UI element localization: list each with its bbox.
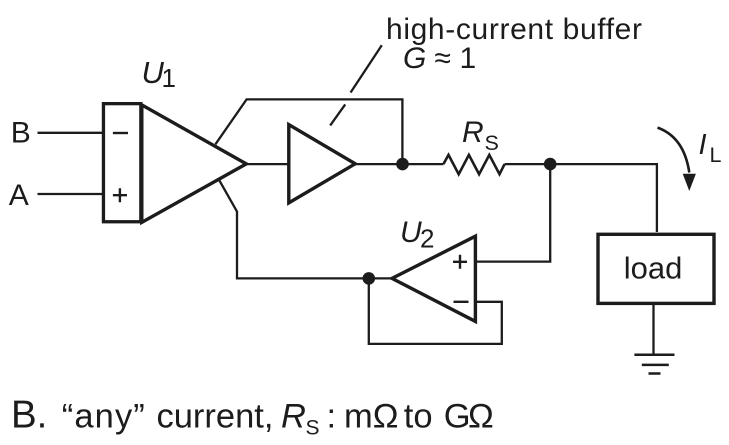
svg-text:I: I xyxy=(699,129,707,161)
op-amp U1 non-inverting pin plus xyxy=(113,188,127,202)
svg-text:B: B xyxy=(11,116,31,149)
resistor RS xyxy=(443,155,504,174)
wire sense node to U2 plus input xyxy=(476,164,551,262)
op-amp U2 plus pin xyxy=(453,255,467,269)
op-amp U2 triangle xyxy=(392,236,475,321)
op-amp U1 input block xyxy=(103,104,140,222)
svg-text:A: A xyxy=(9,179,29,212)
svg-text:G≈1: G≈1 xyxy=(403,42,476,75)
svg-text:S: S xyxy=(485,131,499,155)
load box xyxy=(598,234,714,303)
wire U1 output to buffer xyxy=(246,163,289,165)
svg-text:B.“any”current,RS:mΩtoGΩ: B.“any”current,RS:mΩtoGΩ xyxy=(11,394,494,440)
wire A input xyxy=(38,193,104,195)
svg-text:R: R xyxy=(462,116,484,149)
high-current buffer triangle xyxy=(289,125,355,203)
junction dot buffer output xyxy=(396,158,409,171)
wire from U1 bottom edge to U2 output node xyxy=(219,179,392,278)
op-amp U1 inverting pin minus xyxy=(113,132,128,134)
op-amp U1 triangle xyxy=(142,105,247,222)
svg-text:high-current buffer: high-current buffer xyxy=(386,13,642,46)
svg-text:load: load xyxy=(624,251,683,286)
wire U2 minus feedback loop xyxy=(369,278,502,344)
current arrow IL arc xyxy=(658,128,690,173)
wire down to load xyxy=(656,163,658,232)
junction dot U2 output xyxy=(363,272,376,285)
svg-text:L: L xyxy=(710,143,722,167)
svg-text:U: U xyxy=(400,216,422,249)
svg-text:2: 2 xyxy=(420,224,434,254)
junction dot RS right / sense node xyxy=(544,158,557,171)
wire buffer output xyxy=(354,163,443,165)
ground xyxy=(634,355,674,374)
current arrow IL head xyxy=(683,174,696,191)
wire load to ground xyxy=(652,303,654,354)
wire B input xyxy=(38,132,104,134)
wire RS right to load corner xyxy=(505,163,657,165)
wire feedback from U1 top edge to buffer output xyxy=(215,99,402,164)
op-amp U2 minus pin xyxy=(454,301,469,303)
pointer line from label to buffer (upper segment) xyxy=(351,45,382,92)
svg-text:1: 1 xyxy=(162,63,176,93)
pointer line from label to buffer (lower segment) xyxy=(330,104,345,125)
